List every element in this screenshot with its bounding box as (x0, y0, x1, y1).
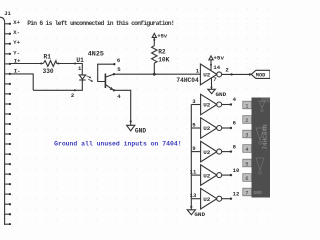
ground symbol GND (pin7) (208, 89, 215, 93)
U2B input stub (191, 104, 200, 106)
U2C output stub (222, 127, 232, 129)
svg-text:R2: R2 (158, 49, 166, 56)
pin dot +5v R2 (153, 39, 155, 41)
chip pin 7 pad (243, 188, 252, 196)
U2E input stub (191, 174, 200, 176)
svg-text:GND: GND (194, 211, 205, 218)
svg-text:7: 7 (213, 76, 216, 83)
LED light arrow 2 (88, 79, 93, 82)
svg-text:4: 4 (117, 93, 121, 100)
connector J1 vertical bus line (4, 22, 6, 225)
resistor R1 (43, 61, 56, 67)
inverter U2F triangle (201, 188, 217, 209)
chip pin 2 pad (243, 116, 252, 124)
pin dot U2C output (230, 127, 232, 129)
wire pin4 emitter to GND (114, 90, 131, 125)
pin dot U1 pin1 (74, 62, 76, 64)
pin dot pin7 (211, 86, 213, 88)
svg-text:74HC04: 74HC04 (176, 77, 199, 84)
chip silk inverter 3 (256, 158, 264, 174)
connector J1 body arc (0, 17, 5, 22)
U2F output stub (222, 198, 232, 200)
svg-text:330: 330 (43, 68, 54, 75)
svg-text:U2: U2 (203, 125, 211, 132)
wire I- down (10, 74, 33, 90)
svg-text:8: 8 (233, 143, 237, 150)
phototransistor emitter with arrow (106, 85, 114, 90)
svg-text:6: 6 (233, 120, 237, 127)
svg-text:U1: U1 (76, 57, 84, 64)
inverter U2E triangle (201, 165, 217, 186)
U2D input stub (191, 151, 200, 153)
svg-text:1: 1 (196, 67, 200, 74)
svg-text:10K: 10K (158, 57, 169, 64)
svg-text:U2: U2 (203, 196, 211, 203)
svg-text:5: 5 (192, 121, 196, 128)
phototransistor base bar (104, 74, 106, 89)
svg-text:1: 1 (78, 65, 82, 72)
U2B output stub (222, 104, 232, 106)
pin dot U2B output (230, 103, 232, 105)
inverter U2B triangle (201, 94, 217, 115)
junction and pin dots (40, 39, 251, 208)
svg-text:4: 4 (245, 147, 248, 153)
chip silk inverter 2 (256, 128, 264, 144)
wire pin5 collector to gate input (114, 73, 200, 75)
inverter U2A bubble (217, 72, 222, 77)
inverter U2F bubble (217, 196, 222, 201)
inverter U2D bubble (217, 149, 222, 154)
LED of optocoupler U1 (79, 75, 85, 79)
svg-text:4: 4 (233, 96, 237, 103)
inverter U2D triangle (201, 141, 217, 162)
svg-text:X+: X+ (13, 19, 20, 26)
svg-text:4N25: 4N25 (88, 50, 104, 58)
ground symbol GND (bus) (187, 210, 195, 215)
pin dot gnd stem pin4 (130, 120, 132, 122)
svg-text:GND: GND (216, 91, 227, 98)
U2E output stub (222, 174, 232, 176)
svg-text:U2: U2 (203, 172, 211, 179)
svg-text:X-: X- (13, 29, 20, 36)
chip pin 6 pad (243, 174, 252, 182)
net flag MOD (251, 70, 270, 78)
svg-text:I-: I- (14, 68, 21, 75)
svg-text:Ground all unused inputs on 74: Ground all unused inputs on 7404! (54, 140, 181, 147)
svg-text:1: 1 (245, 103, 248, 109)
svg-text:R1: R1 (44, 53, 52, 60)
wire R2 to node (153, 63, 155, 74)
pin dot R1 left (40, 63, 42, 65)
wire U1 pin2 bottom (33, 80, 82, 90)
svg-text:11: 11 (190, 169, 197, 176)
svg-text:+5v: +5v (157, 33, 167, 39)
svg-text:J1: J1 (4, 10, 11, 17)
pin dot U2E output (230, 174, 232, 176)
wire U2A output pin2 (222, 73, 252, 75)
ground symbol GND (pin4) (127, 125, 135, 131)
svg-text:12: 12 (233, 190, 240, 197)
chip photo 74HC04N (243, 98, 271, 198)
U2F input stub (191, 198, 200, 200)
svg-text:6: 6 (245, 176, 248, 182)
svg-text:9: 9 (192, 145, 196, 152)
svg-text:MOD: MOD (256, 72, 266, 78)
svg-text:5: 5 (117, 66, 121, 73)
svg-text:U2: U2 (203, 149, 211, 156)
chip body (252, 98, 271, 198)
pin dot U1 pin6 (113, 63, 115, 65)
wire +5v to R2 (153, 37, 155, 45)
wire I+ to R1 (10, 63, 43, 65)
inverter U2C bubble (217, 126, 222, 131)
U2D output stub (222, 151, 232, 153)
phototransistor base wire to pin 6 (98, 64, 115, 81)
chip silk inverter 1 (259, 101, 265, 112)
svg-text:14: 14 (213, 64, 220, 71)
pin dot U2D output (230, 150, 232, 152)
inverter U2E bubble (217, 173, 222, 178)
svg-text:2: 2 (245, 118, 248, 124)
svg-text:+5v: +5v (213, 55, 224, 62)
svg-text:3: 3 (192, 98, 196, 105)
svg-text:I+: I+ (14, 57, 21, 64)
node R2-collector junction (153, 73, 156, 76)
LED cathode bar (79, 79, 85, 81)
schematic text labels (4, 10, 265, 218)
pin dot U1 pin2 (74, 89, 76, 91)
pin dot U2A output (249, 73, 251, 75)
svg-text:74HC04N: 74HC04N (262, 124, 269, 150)
U2C input stub (191, 127, 200, 129)
svg-text:7: 7 (245, 190, 248, 196)
inverter U2C triangle (201, 118, 217, 139)
svg-text:GND: GND (135, 127, 146, 134)
svg-text:6: 6 (117, 57, 121, 64)
svg-text:Y+: Y+ (13, 39, 20, 46)
resistor R2 (152, 46, 157, 63)
inverter U2A triangle (200, 64, 217, 85)
svg-text:10: 10 (233, 167, 240, 174)
connector pin ticks group (5, 23, 11, 226)
LED light arrow 1 (86, 76, 91, 79)
chip body highlight top (261, 98, 270, 103)
chip pin 5 pad (243, 159, 252, 167)
pin dot pin14 (210, 64, 212, 66)
svg-text:5: 5 (245, 161, 248, 167)
phototransistor collector (106, 74, 114, 77)
chip pin 3 pad (243, 130, 252, 138)
pin dot U2F output (230, 198, 232, 200)
svg-text:U2: U2 (203, 102, 211, 109)
pin dot U1 pin4 (113, 89, 115, 91)
chip pin 1 pad (243, 101, 252, 109)
pin dot bus gnd (190, 206, 192, 208)
U2A pin7 stub (211, 78, 213, 89)
supply +5v symbol (pin14) (209, 56, 213, 60)
inverter U2B bubble (217, 102, 222, 107)
svg-text:U2: U2 (203, 72, 211, 79)
svg-text:Y-: Y- (13, 49, 20, 56)
svg-text:3: 3 (245, 132, 248, 138)
U2A pin14 stub (210, 60, 212, 71)
svg-text:2: 2 (71, 92, 75, 99)
svg-text:Pin 6 is left unconnected in t: Pin 6 is left unconnected in this config… (27, 20, 174, 27)
pin dot U2A output pin end (230, 73, 232, 75)
wire R1 to U1 pin1 (57, 64, 83, 75)
chip pin 4 pad (243, 145, 252, 153)
unused-input bus wire (190, 105, 192, 210)
svg-text:GND: GND (254, 190, 263, 196)
pin dot U1 pin5 (113, 73, 115, 75)
pin dot R1 right (57, 63, 59, 65)
supply +5v symbol (R2) (152, 33, 156, 37)
svg-text:2: 2 (225, 66, 229, 73)
svg-text:13: 13 (190, 192, 197, 199)
